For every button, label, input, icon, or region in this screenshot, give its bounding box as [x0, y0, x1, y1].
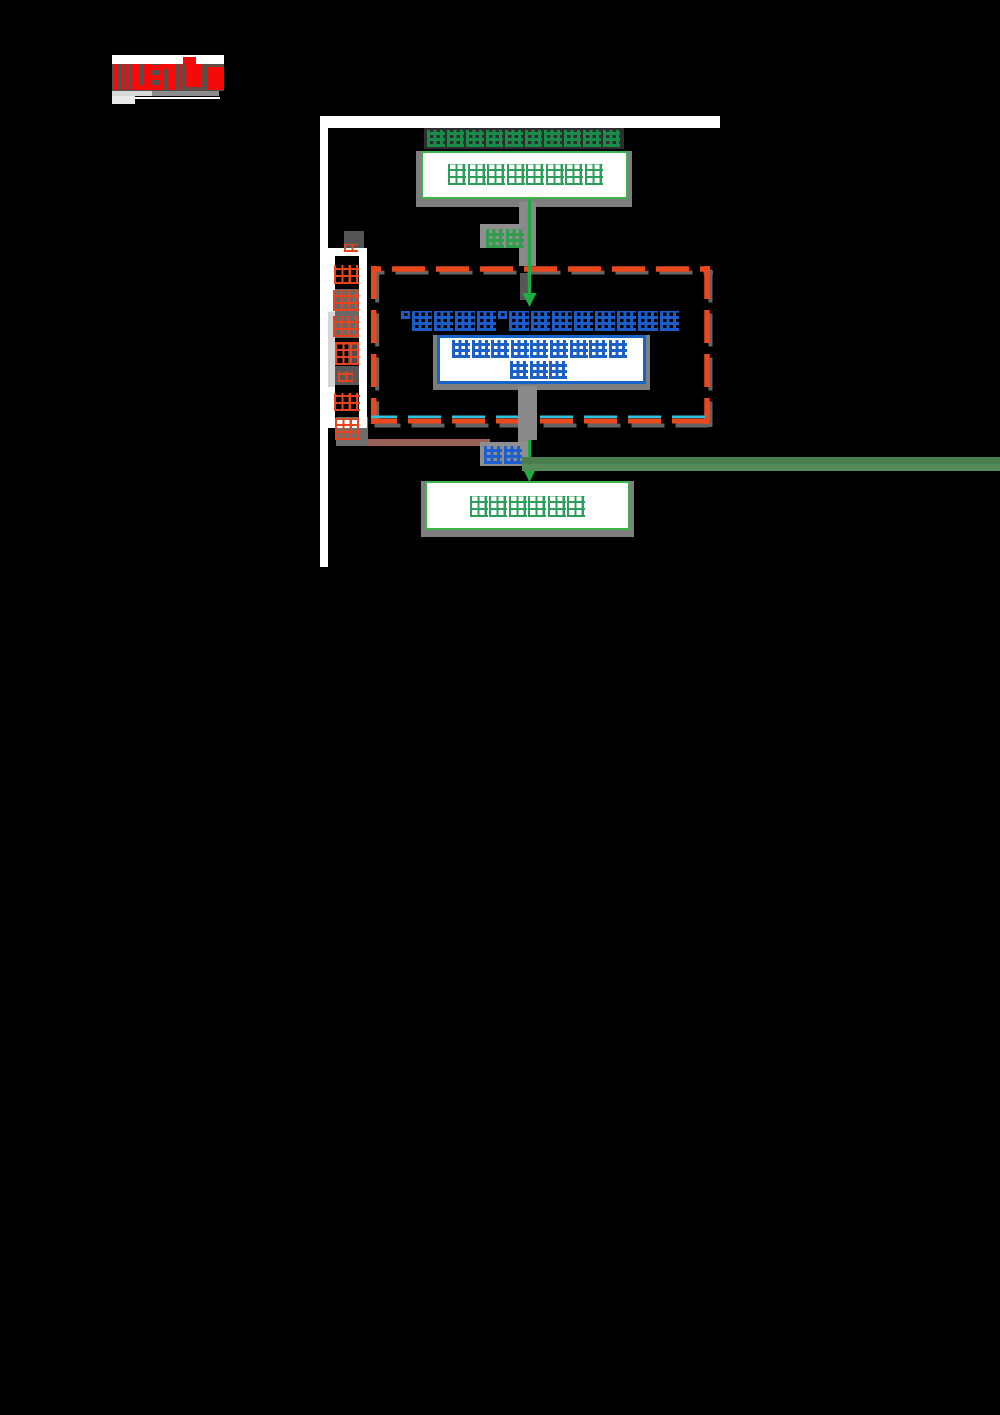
SVG layer: dashed rect + arrows	[0, 0, 1000, 600]
title block light strips	[112, 91, 152, 96]
dashed rect bottom edge red part	[371, 419, 710, 424]
gray halo behind 提交	[480, 224, 521, 248]
gray halo behind 通过	[480, 442, 528, 466]
gray halo along arrow1 (inside dashed rect)	[520, 273, 528, 300]
gray halo along arrow1	[519, 202, 536, 266]
title red text (blurred logo-like)	[183, 57, 196, 65]
dashed rect right edge	[704, 266, 710, 424]
title block gray band	[112, 64, 224, 91]
green arrow 2 head	[523, 468, 537, 482]
vertical red text: "五规融合"平台	[344, 239, 358, 257]
dashed rect top edge	[371, 266, 710, 272]
green box3	[425, 481, 630, 530]
top white strip	[320, 116, 721, 128]
box2 line1: 编制成果及合规性审	[452, 340, 627, 358]
gray halo box1	[416, 151, 632, 207]
white outline box around vertical text	[327, 248, 367, 428]
green arrow 1 shaft	[528, 199, 531, 295]
blue heading with quotes: "五规融合"工作领导小组办公室	[401, 311, 679, 331]
box3 text: 编制成果更新	[470, 496, 585, 517]
left white vertical strip	[320, 128, 328, 567]
gray halo box3	[421, 481, 634, 537]
gray halo along arrow2	[518, 386, 537, 440]
green arrow 1 head	[523, 293, 537, 307]
label 通过	[484, 446, 522, 464]
green box1	[421, 151, 628, 199]
wide green band	[522, 457, 1000, 471]
dashed rect left edge	[371, 266, 377, 424]
gray halo box2	[433, 335, 650, 390]
dashed rect bottom edge cyan part	[371, 415, 710, 418]
dark green heading: 环境规划与科技标准科	[424, 128, 624, 149]
label 提交	[486, 229, 524, 248]
title block top-left: white strip	[112, 55, 224, 64]
dashed rect gray shadow	[375, 270, 714, 428]
gray blobs behind vertical red text	[344, 231, 364, 248]
green arrow 2 shaft	[528, 384, 531, 470]
blue box2	[437, 335, 646, 384]
box2 line2: 查报告	[510, 361, 567, 379]
brown line	[340, 439, 490, 446]
box1 text: 环保专项规划编制	[448, 164, 603, 185]
